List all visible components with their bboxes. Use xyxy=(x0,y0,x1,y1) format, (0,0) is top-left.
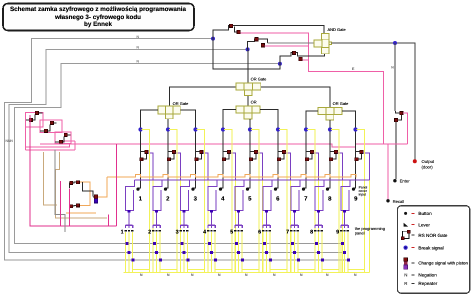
yellow comb hook 9 xyxy=(348,269,365,271)
button 8 prong wire 1 xyxy=(314,232,316,272)
svg-text:Button: Button xyxy=(418,211,432,216)
OR gate M body xyxy=(236,106,244,113)
repeater T2 piston 1 xyxy=(255,38,258,41)
column 1 break-signal node xyxy=(138,127,142,131)
OR gate T bottom wire xyxy=(247,96,249,106)
column 5 repeater piston 1 xyxy=(254,150,257,153)
column 7 repeater piston 1 xyxy=(310,150,313,153)
latch pink left edge xyxy=(25,127,27,150)
button 7 trident xyxy=(291,225,298,228)
repeater T3 piston 1 xyxy=(293,51,296,54)
button 6 prong wire 1 xyxy=(262,232,264,272)
column 5 yellow branch xyxy=(251,130,259,273)
button 5 actuator dot xyxy=(246,188,249,191)
latch magenta drop wire xyxy=(30,115,117,226)
N line to enter xyxy=(394,43,396,111)
column 8 repeater piston 1 xyxy=(334,150,337,153)
lower cluster magenta drop 1 xyxy=(60,181,62,226)
column 7 repeater wire xyxy=(306,151,312,159)
column 4 purple branch xyxy=(231,153,236,180)
button 8 switch xyxy=(315,180,324,211)
yellow comb hook 4 xyxy=(215,269,232,271)
column 6 yellow branch xyxy=(279,130,287,273)
AND gate left input box xyxy=(314,40,322,47)
button 6 actuator dot xyxy=(274,188,277,191)
button 4 contact node xyxy=(210,210,213,213)
button 9 bus tap 2 xyxy=(343,251,346,254)
button 3 bus tap 3 xyxy=(186,259,189,262)
svg-text:Repeater: Repeater xyxy=(418,281,437,286)
button 8 actuator dot xyxy=(326,188,329,191)
pink net E wire xyxy=(308,60,383,144)
button 4 prong wire 2 xyxy=(211,232,213,272)
latch pink ring B xyxy=(40,120,62,132)
latch pink ring C xyxy=(55,132,71,143)
button 9 prong wire 1 xyxy=(340,232,342,272)
yellow comb hook 7 xyxy=(298,269,315,271)
repeater T2 wire xyxy=(248,39,268,50)
repeater EN pink output xyxy=(403,113,408,144)
repeater T1 piston 1 xyxy=(230,24,233,27)
column 9 repeater piston 2 xyxy=(355,158,358,161)
column 4 yellow lower wire xyxy=(235,180,237,273)
button 8 contact node xyxy=(317,210,320,213)
svg-text:Recall: Recall xyxy=(393,199,405,204)
repeater T3 pink output xyxy=(302,59,308,61)
button 4 bus tap 2 xyxy=(210,251,213,254)
svg-text:Change signal with piston: Change signal with piston xyxy=(418,260,468,265)
button 4 bus tap 1 xyxy=(208,242,211,245)
button 2 trident xyxy=(153,225,160,228)
column 9 break-signal node xyxy=(353,127,357,131)
button 7 prong wire 2 xyxy=(294,232,296,272)
column 9 repeater wire xyxy=(356,151,362,159)
magenta riser to programming panel xyxy=(116,144,118,226)
button 2 stem xyxy=(156,213,158,225)
latch repeater 1 piston 2 xyxy=(29,118,32,121)
column 3 repeater piston 2 xyxy=(195,158,198,161)
column 3 yellow lower wire xyxy=(207,180,209,273)
column 9 purple branch xyxy=(363,153,369,180)
latch repeater 1 piston 1 xyxy=(35,111,38,114)
svg-text:panel: panel xyxy=(355,231,365,236)
lower cluster link wire xyxy=(82,182,94,197)
yellow comb hook 3 xyxy=(188,269,205,271)
wire loop B (middle, to bus 2) xyxy=(9,49,346,252)
button 7 stem xyxy=(294,213,296,225)
wire from node 1 to node 3 xyxy=(213,39,280,69)
enter terminal dot xyxy=(393,179,396,182)
column 1 repeater wire xyxy=(141,151,147,159)
yellow comb hook 1 xyxy=(133,269,150,271)
column 6 wire xyxy=(260,109,278,188)
button 3 prong wire 1 xyxy=(179,232,181,272)
repeater T2 piston 2 xyxy=(261,44,264,47)
button 7 prong wire 1 xyxy=(290,232,292,272)
OR gate T body xyxy=(236,83,244,90)
lower repeater B piston 1 xyxy=(70,205,73,208)
button 5 trident xyxy=(235,225,242,228)
latch repeater 2 piston 2 xyxy=(44,129,47,132)
AND gate cell mid xyxy=(322,39,330,47)
repeater EN wire xyxy=(395,111,401,179)
column 6 yellow lower wire xyxy=(290,180,292,273)
latch repeater 2 wire xyxy=(40,123,56,131)
AND gate cell top xyxy=(322,34,330,40)
button 6 prong wire 3 xyxy=(269,232,271,272)
button 4 trident xyxy=(208,225,215,228)
button 4 actuator dot xyxy=(219,188,222,191)
title box xyxy=(3,4,194,31)
button 9 contact node xyxy=(343,210,346,213)
button 2 bus tap 3 xyxy=(159,259,162,262)
column 6 repeater piston 1 xyxy=(282,150,285,153)
column 7 wire xyxy=(304,111,318,188)
button 5 stem xyxy=(238,213,240,225)
button 1 bus tap 3 xyxy=(131,259,134,262)
button 1 trident xyxy=(125,225,132,228)
svg-text:6: 6 xyxy=(258,230,261,236)
wire loop A (outer, to bus 3) xyxy=(5,39,350,260)
column 4 wire xyxy=(221,109,236,188)
button 1 bus tap 1 xyxy=(125,242,128,245)
button 7 contact node xyxy=(293,210,296,213)
button 8 prong wire 2 xyxy=(318,232,320,272)
column 1 wire xyxy=(138,110,158,188)
repeater T1 piston 2 xyxy=(237,30,240,33)
column 3 wire xyxy=(180,110,195,188)
junction node 4 xyxy=(393,41,397,45)
column 5 break-signal node xyxy=(248,127,252,131)
column 6 repeater wire xyxy=(278,151,284,159)
button 9 prong wire 2 xyxy=(344,232,346,272)
svg-text:Enter: Enter xyxy=(400,179,411,184)
button 8 stem xyxy=(318,213,320,225)
latch pink lower wire xyxy=(26,149,75,151)
svg-text:RS NOR Gate: RS NOR Gate xyxy=(418,233,448,238)
column 6 repeater piston 2 xyxy=(277,158,280,161)
OR gate R body xyxy=(318,107,326,114)
button 6 stem xyxy=(266,213,268,225)
column 6 break-signal node xyxy=(276,127,280,131)
svg-text:by Ennek: by Ennek xyxy=(84,21,112,28)
button 7 switch xyxy=(291,180,300,211)
svg-text:2: 2 xyxy=(148,230,151,236)
lower repeater A piston 1 xyxy=(70,181,73,184)
button 9 actuator dot xyxy=(352,188,355,191)
column 8 yellow lower wire xyxy=(342,180,344,273)
svg-text:R: R xyxy=(404,281,407,286)
button 1 switch xyxy=(126,180,135,211)
svg-text:OR Gate: OR Gate xyxy=(333,101,350,106)
purple panel cover bus xyxy=(135,179,370,181)
button 2 prong wire 3 xyxy=(159,232,161,272)
button 1 contact dashes xyxy=(125,230,127,232)
column 8 yellow branch xyxy=(331,130,339,273)
gray wire from latch xyxy=(55,149,65,232)
lower repeater A piston 2 xyxy=(76,181,79,184)
column 1 purple branch xyxy=(148,153,153,180)
column 3 purple branch xyxy=(203,153,208,180)
svg-text:5: 5 xyxy=(230,230,233,236)
button 6 contact node xyxy=(265,210,268,213)
column 5 wire xyxy=(248,119,250,188)
button 3 prong wire 3 xyxy=(187,232,189,272)
button 9 prong wire 3 xyxy=(347,232,349,272)
column 2 repeater wire xyxy=(168,151,174,159)
button 8 bus tap 1 xyxy=(315,242,318,245)
column 3 break-signal node xyxy=(193,127,197,131)
column 7 purple branch xyxy=(314,153,319,180)
yellow comb hook 5 xyxy=(242,269,259,271)
repeater T1 pink output xyxy=(240,33,308,60)
svg-text:1: 1 xyxy=(121,230,124,236)
column 1 repeater piston 2 xyxy=(140,158,143,161)
column 4 repeater piston 2 xyxy=(222,158,225,161)
button 1 prong wire 2 xyxy=(128,232,130,272)
latch pink ring A xyxy=(26,112,43,127)
button 5 contact dashes xyxy=(234,230,236,232)
column 5 repeater wire xyxy=(250,151,256,159)
yellow comb hook 8 xyxy=(322,269,339,271)
button 4 prong wire 1 xyxy=(207,232,209,272)
button 1 stem xyxy=(128,213,130,225)
button 5 prong wire 2 xyxy=(238,232,240,272)
repeater T3 piston 2 xyxy=(299,57,302,60)
OR gate T output wire xyxy=(247,49,249,83)
column 7 repeater piston 2 xyxy=(305,158,308,161)
button 9 bus tap 1 xyxy=(341,242,344,245)
column 5 repeater piston 2 xyxy=(249,158,252,161)
button 7 contact dashes xyxy=(290,230,292,232)
orange bus (with negation hops) xyxy=(107,174,356,176)
button 1 actuator dot xyxy=(136,188,139,191)
column 4 repeater piston 1 xyxy=(227,150,230,153)
column 9 wire xyxy=(342,111,356,188)
latch pink right wire xyxy=(62,141,75,150)
button 8 bus tap 2 xyxy=(317,251,320,254)
column 9 repeater piston 1 xyxy=(360,150,363,153)
button 9 bus tap 3 xyxy=(347,259,350,262)
lower cluster magenta drop 2 xyxy=(68,188,70,226)
OR gate L body xyxy=(158,106,165,114)
column 6 purple branch xyxy=(286,153,291,180)
column 9 yellow branch xyxy=(357,130,365,273)
button 8 bus tap 3 xyxy=(321,259,324,262)
button 7 bus tap 3 xyxy=(297,259,300,262)
column 2 yellow lower wire xyxy=(180,180,182,273)
recall pink wire xyxy=(387,144,389,200)
button 2 contact node xyxy=(155,210,158,213)
column 9 yellow lower wire xyxy=(369,180,371,273)
AND output wire xyxy=(332,43,415,160)
junction node 3 xyxy=(278,62,282,66)
yellow comb hook 2 xyxy=(160,269,177,271)
orange bus left drop xyxy=(97,177,107,197)
button 2 prong wire 1 xyxy=(152,232,154,272)
column 8 break-signal node xyxy=(328,127,332,131)
column 3 repeater piston 1 xyxy=(200,150,203,153)
button 2 actuator dot xyxy=(164,188,167,191)
output terminal dot xyxy=(413,159,417,163)
lower repeater B piston 2 xyxy=(76,204,79,207)
junction node 1 xyxy=(211,37,215,41)
button 3 bus tap 2 xyxy=(183,251,186,254)
column 8 repeater wire xyxy=(330,151,336,159)
button 8 prong wire 3 xyxy=(321,232,323,272)
button 7 actuator dot xyxy=(302,188,305,191)
column 8 repeater piston 2 xyxy=(329,158,332,161)
button 2 bus tap 2 xyxy=(155,251,158,254)
repeater T1 step xyxy=(235,27,238,32)
column 7 yellow lower wire xyxy=(318,180,320,273)
column 4 break-signal node xyxy=(221,127,225,131)
column 3 repeater wire xyxy=(196,151,202,159)
latch repeater 3 piston 1 xyxy=(64,133,67,136)
junction node 2 xyxy=(246,47,250,51)
svg-text:Schemat zamka szyfrowego z moż: Schemat zamka szyfrowego z możliwością p… xyxy=(10,6,187,13)
button 4 bus tap 3 xyxy=(214,259,217,262)
button 2 prong wire 2 xyxy=(156,232,158,272)
legend RS NOR symbol xyxy=(402,231,409,238)
yellow bottom rail xyxy=(124,272,370,274)
column 5 purple branch xyxy=(258,153,263,180)
button 3 trident xyxy=(180,225,187,228)
wire loop C (inner, to bus 1) xyxy=(15,63,343,243)
lower repeater B bracket xyxy=(70,205,77,212)
button 7 prong wire 3 xyxy=(297,232,299,272)
button 4 switch xyxy=(208,180,217,211)
button 6 contact dashes xyxy=(262,230,264,232)
button 6 prong wire 2 xyxy=(266,232,268,272)
lower repeater A bracket xyxy=(70,182,77,188)
button 3 stem xyxy=(183,213,185,225)
button 1 bus tap 2 xyxy=(128,251,131,254)
svg-text:AND Gate: AND Gate xyxy=(328,27,347,32)
column 2 purple branch xyxy=(176,153,181,180)
button 8 contact dashes xyxy=(314,230,316,232)
svg-text:własnego 3- cyfrowego kodu: własnego 3- cyfrowego kodu xyxy=(54,14,141,21)
latch repeater 1 wire xyxy=(26,113,43,120)
long pink wire xyxy=(40,144,407,147)
button 9 stem xyxy=(344,213,346,225)
yellow comb hook 6 xyxy=(270,269,287,271)
button 5 contact node xyxy=(237,210,240,213)
svg-text:OR Gate: OR Gate xyxy=(251,77,268,82)
legend button symbol xyxy=(404,212,407,215)
column 3 yellow branch xyxy=(197,130,205,273)
svg-text:OR Gate: OR Gate xyxy=(173,101,190,106)
svg-text:input: input xyxy=(359,193,366,197)
button 5 switch xyxy=(235,180,244,211)
column 1 repeater piston 1 xyxy=(145,150,148,153)
column 2 wire xyxy=(166,119,168,188)
lower cluster orange bottom wire xyxy=(66,212,96,214)
column 2 yellow branch xyxy=(169,130,177,273)
svg-text:3: 3 xyxy=(176,230,179,236)
button 6 bus tap 2 xyxy=(265,251,268,254)
button 3 contact dashes xyxy=(180,230,182,232)
button 3 actuator dot xyxy=(191,188,194,191)
svg-text:Lever: Lever xyxy=(418,222,430,227)
button 5 bus tap 3 xyxy=(241,259,244,262)
svg-text:N: N xyxy=(404,272,407,277)
button 4 contact dashes xyxy=(207,230,209,232)
button 5 prong wire 3 xyxy=(241,232,243,272)
repeater T1 wire xyxy=(213,26,324,39)
column 2 repeater piston 1 xyxy=(172,150,175,153)
magenta stub xyxy=(108,214,110,226)
svg-text:(door): (door) xyxy=(422,165,434,170)
button 6 bus tap 1 xyxy=(263,242,266,245)
column 4 yellow branch xyxy=(224,130,232,273)
svg-text:4: 4 xyxy=(203,230,206,236)
latch repeater 2 piston 1 xyxy=(50,121,53,124)
button 9 contact dashes xyxy=(340,230,342,232)
legend piston symbol xyxy=(404,258,408,262)
AND gate cell bottom xyxy=(322,47,330,53)
repeater T3 wire xyxy=(280,52,325,63)
button 9 trident xyxy=(341,225,348,228)
repeater EN piston 1 xyxy=(400,111,403,114)
svg-text:8: 8 xyxy=(310,230,313,236)
svg-text:Output: Output xyxy=(422,159,435,164)
svg-text:NNN: NNN xyxy=(6,139,14,143)
AND gate output stub xyxy=(329,42,332,45)
button 3 switch xyxy=(181,180,190,211)
button 9 switch xyxy=(341,180,350,211)
column 8 purple branch xyxy=(338,153,343,180)
legend lever symbol xyxy=(404,223,409,227)
piston component red half xyxy=(94,195,98,199)
button 3 contact node xyxy=(183,210,186,213)
button 3 bus tap 1 xyxy=(180,242,183,245)
svg-text:Negation: Negation xyxy=(418,272,437,277)
svg-text:OR: OR xyxy=(251,100,257,105)
button 7 bus tap 1 xyxy=(291,242,294,245)
column 4 repeater wire xyxy=(223,151,229,159)
latch repeater 3 wire xyxy=(55,135,71,142)
button 4 prong wire 3 xyxy=(214,232,216,272)
column 8 wire xyxy=(328,120,330,188)
column 7 break-signal node xyxy=(304,127,308,131)
repeater T2 gray output xyxy=(268,42,314,44)
button 5 bus tap 1 xyxy=(235,242,238,245)
button 6 switch xyxy=(263,180,272,211)
button 1 contact node xyxy=(128,210,131,213)
button 1 prong wire 1 xyxy=(124,232,126,272)
svg-text:Break signal: Break signal xyxy=(418,245,443,250)
button 2 switch xyxy=(153,180,162,211)
legend box xyxy=(397,206,469,294)
column 2 break-signal node xyxy=(166,127,170,131)
column 7 yellow branch xyxy=(307,130,315,273)
OR gate T right arm xyxy=(261,87,330,108)
button 7 bus tap 2 xyxy=(293,251,296,254)
column 1 yellow branch xyxy=(142,130,150,273)
svg-text:7: 7 xyxy=(286,230,289,236)
repeater T2 pink output xyxy=(265,45,309,47)
button 3 prong wire 2 xyxy=(183,232,185,272)
button 6 bus tap 3 xyxy=(269,259,272,262)
piston component purple half xyxy=(94,199,98,203)
button 2 contact dashes xyxy=(152,230,154,232)
button 2 bus tap 1 xyxy=(153,242,156,245)
tan wire from latch xyxy=(44,152,107,218)
column 5 yellow lower wire xyxy=(262,180,264,273)
button 1 prong wire 3 xyxy=(132,232,134,272)
legend break signal symbol xyxy=(404,246,408,250)
